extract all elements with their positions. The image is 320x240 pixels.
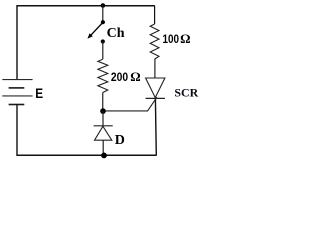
wire bottom xyxy=(16,154,156,156)
battery E plate long 2 xyxy=(2,95,32,97)
battery E plate short 2 xyxy=(9,104,25,106)
switch Ch terminal dot 2 xyxy=(101,20,105,24)
switch Ch terminal dot 3 xyxy=(101,39,105,43)
wire left lower xyxy=(16,105,18,156)
wire switch top lead xyxy=(102,6,104,22)
label 200 ohm xyxy=(111,69,141,84)
svg-text:200: 200 xyxy=(111,71,128,84)
wire right lower xyxy=(154,98,157,155)
wire below 200 ohm xyxy=(102,93,104,112)
svg-text:D: D xyxy=(115,133,125,148)
wire right upper xyxy=(154,6,156,24)
wire below diode xyxy=(102,140,104,155)
battery E plate short 1 xyxy=(9,87,25,89)
svg-text:Ω: Ω xyxy=(130,69,140,84)
label 100 ohm xyxy=(163,31,191,46)
svg-text:Ch: Ch xyxy=(107,26,125,41)
svg-text:SCR: SCR xyxy=(174,85,198,99)
SCR gate wire diagonal xyxy=(103,97,157,111)
svg-text:100: 100 xyxy=(163,33,180,46)
wire left upper xyxy=(16,6,18,80)
battery E plate long top xyxy=(2,79,32,81)
wire to 200 ohm xyxy=(102,42,104,60)
node dot bottom xyxy=(101,153,107,159)
node dot gate junction xyxy=(100,108,106,114)
diode D cathode bar xyxy=(94,125,113,127)
node dot top (switch top terminal) xyxy=(101,3,106,8)
resistor 100 ohm zigzag xyxy=(150,24,159,59)
SCR cathode bar xyxy=(146,97,165,99)
svg-text:E: E xyxy=(35,85,43,101)
wire to diode xyxy=(102,111,104,126)
SCR U1 triangle xyxy=(146,78,165,98)
diode D triangle xyxy=(95,126,112,140)
wire top xyxy=(16,5,154,7)
svg-text:Ω: Ω xyxy=(180,31,190,46)
battery label E xyxy=(35,85,43,101)
switch Ch blade with arrow xyxy=(91,23,103,35)
resistor 200 ohm zigzag xyxy=(98,59,108,92)
wire right mid xyxy=(154,59,156,78)
